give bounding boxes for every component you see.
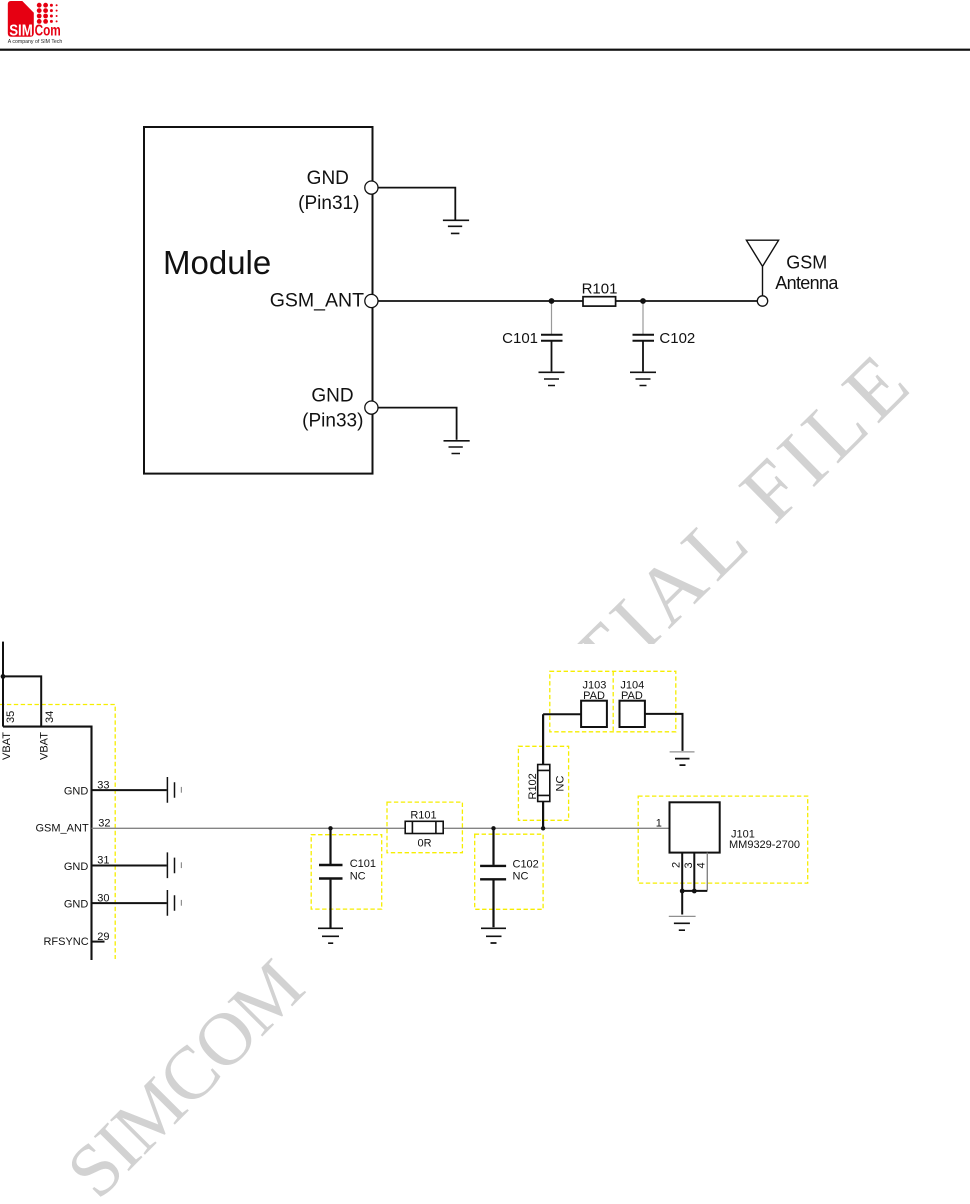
wire GND 33 — [92, 789, 167, 791]
svg-text:GSM: GSM — [786, 253, 827, 273]
junction dot C101 — [328, 826, 332, 830]
svg-text:GND: GND — [311, 386, 353, 407]
yellow box J103 J104 — [550, 671, 676, 732]
pin circle GND Pin31 — [365, 181, 378, 194]
junction dot J101 p3 — [692, 889, 697, 894]
svg-text:R101: R101 — [410, 810, 436, 822]
watermark CONFIDENTIAL FILE — [215, 332, 930, 1037]
ground J101 — [669, 916, 696, 930]
ground (pin33) — [444, 441, 470, 454]
resistor R102 (vertical) — [538, 714, 550, 828]
bottom figure labels — [1, 679, 800, 947]
ground (pin31) — [443, 220, 469, 233]
svg-text:GND: GND — [64, 899, 89, 911]
resistor R101 — [583, 297, 616, 306]
svg-text:C102: C102 — [659, 330, 695, 347]
svg-text:SIM: SIM — [9, 22, 33, 39]
wire pin33 to ground — [378, 408, 457, 440]
svg-text:VBAT: VBAT — [39, 732, 51, 760]
svg-text:R102: R102 — [527, 773, 539, 799]
ground C102 (bottom) — [481, 928, 506, 943]
svg-text:31: 31 — [97, 855, 109, 867]
J101 pin2 — [681, 853, 683, 892]
junction dot B — [640, 298, 646, 304]
svg-text:(Pin31): (Pin31) — [298, 193, 359, 214]
capacitor C102 (bottom) — [480, 828, 506, 927]
module box — [144, 127, 373, 474]
pad J103 — [543, 701, 607, 727]
svg-text:GND: GND — [64, 786, 89, 798]
svg-text:NC: NC — [513, 871, 529, 883]
svg-text:GSM_ANT: GSM_ANT — [270, 290, 364, 312]
svg-text:C101: C101 — [350, 858, 376, 870]
svg-text:SIMCOM: SIMCOM — [51, 945, 318, 1204]
svg-text:PAD: PAD — [621, 690, 643, 702]
resistor R101 (bottom) — [405, 821, 443, 833]
J101 pin3 — [693, 853, 695, 892]
J101 ground wire — [681, 891, 683, 914]
logo dot matrix — [37, 3, 58, 24]
svg-text:1: 1 — [656, 818, 662, 830]
svg-text:R101: R101 — [582, 281, 618, 298]
svg-text:GND: GND — [64, 861, 89, 873]
J101 pin4 (gray) — [706, 853, 708, 891]
svg-text:2: 2 — [671, 862, 683, 868]
wire VBAT pins — [3, 642, 167, 960]
svg-text:NC: NC — [350, 871, 366, 883]
svg-text:NC: NC — [555, 776, 567, 792]
wire GND 31 — [92, 865, 167, 867]
junction dot A — [549, 298, 555, 304]
yellow box R101 — [387, 802, 462, 853]
yellow box C102 — [475, 834, 543, 909]
svg-text:33: 33 — [97, 779, 109, 791]
svg-text:CONFIDENTIAL FILE: CONFIDENTIAL FILE — [215, 332, 930, 1037]
ground C101 (bottom) — [318, 928, 343, 943]
svg-text:0R: 0R — [417, 838, 431, 850]
pad J104 — [620, 701, 683, 751]
svg-text:GND: GND — [307, 168, 349, 189]
via ground GND31 — [167, 852, 181, 878]
svg-text:C101: C101 — [502, 330, 538, 347]
logo SIMCom card shape — [8, 1, 34, 37]
svg-text:Antenna: Antenna — [775, 273, 839, 293]
via ground GND30 — [167, 890, 181, 916]
header rule — [0, 49, 970, 51]
svg-text:29: 29 — [97, 931, 109, 943]
svg-text:3: 3 — [683, 862, 695, 868]
yellow box R102 — [518, 746, 568, 820]
junction dot VBAT — [1, 674, 6, 679]
svg-text:30: 30 — [97, 892, 109, 904]
connector J101 — [670, 802, 720, 914]
ground J104 — [670, 752, 695, 765]
part outline — [3, 727, 92, 960]
svg-text:PAD: PAD — [583, 690, 605, 702]
yellow box J101 — [638, 796, 808, 883]
junction dot J101 p2 — [680, 889, 685, 894]
svg-text:35: 35 — [5, 711, 17, 723]
svg-text:GSM_ANT: GSM_ANT — [36, 823, 89, 835]
svg-text:VBAT: VBAT — [1, 732, 13, 760]
svg-text:4: 4 — [696, 862, 708, 868]
svg-text:(Pin33): (Pin33) — [302, 411, 363, 432]
wire GSM_ANT net (gray) — [92, 827, 670, 829]
svg-text:C102: C102 — [513, 858, 539, 870]
junction dot C102 — [491, 826, 495, 830]
ground C102 — [630, 372, 656, 385]
yellow dashed region part — [0, 671, 808, 959]
wire GSM_ANT main — [378, 300, 758, 302]
antenna GSM — [746, 240, 778, 296]
pin circle GSM_ANT — [365, 294, 378, 307]
junction dot R102 — [541, 826, 545, 830]
svg-text:32: 32 — [98, 818, 110, 830]
svg-text:RFSYNC: RFSYNC — [43, 936, 88, 948]
capacitor C102 — [642, 301, 644, 334]
svg-text:Com: Com — [35, 22, 61, 39]
via ground GND33 — [167, 777, 181, 803]
svg-text:Module: Module — [163, 244, 271, 281]
yellow box C101 — [311, 835, 382, 909]
wire RFSYNC stub — [92, 941, 105, 943]
svg-text:MM9329-2700: MM9329-2700 — [729, 839, 800, 851]
svg-text:34: 34 — [44, 711, 56, 723]
J101 pins junction wire — [682, 890, 707, 892]
wire pin31 to ground — [378, 188, 455, 220]
ground C101 — [539, 372, 565, 385]
wire GND 30 — [92, 902, 167, 904]
capacitor C101 — [551, 301, 553, 334]
capacitor C101 (bottom) — [319, 828, 343, 927]
svg-text:A company of SIM Tech: A company of SIM Tech — [8, 39, 63, 45]
pin circle GND Pin33 — [365, 401, 378, 414]
